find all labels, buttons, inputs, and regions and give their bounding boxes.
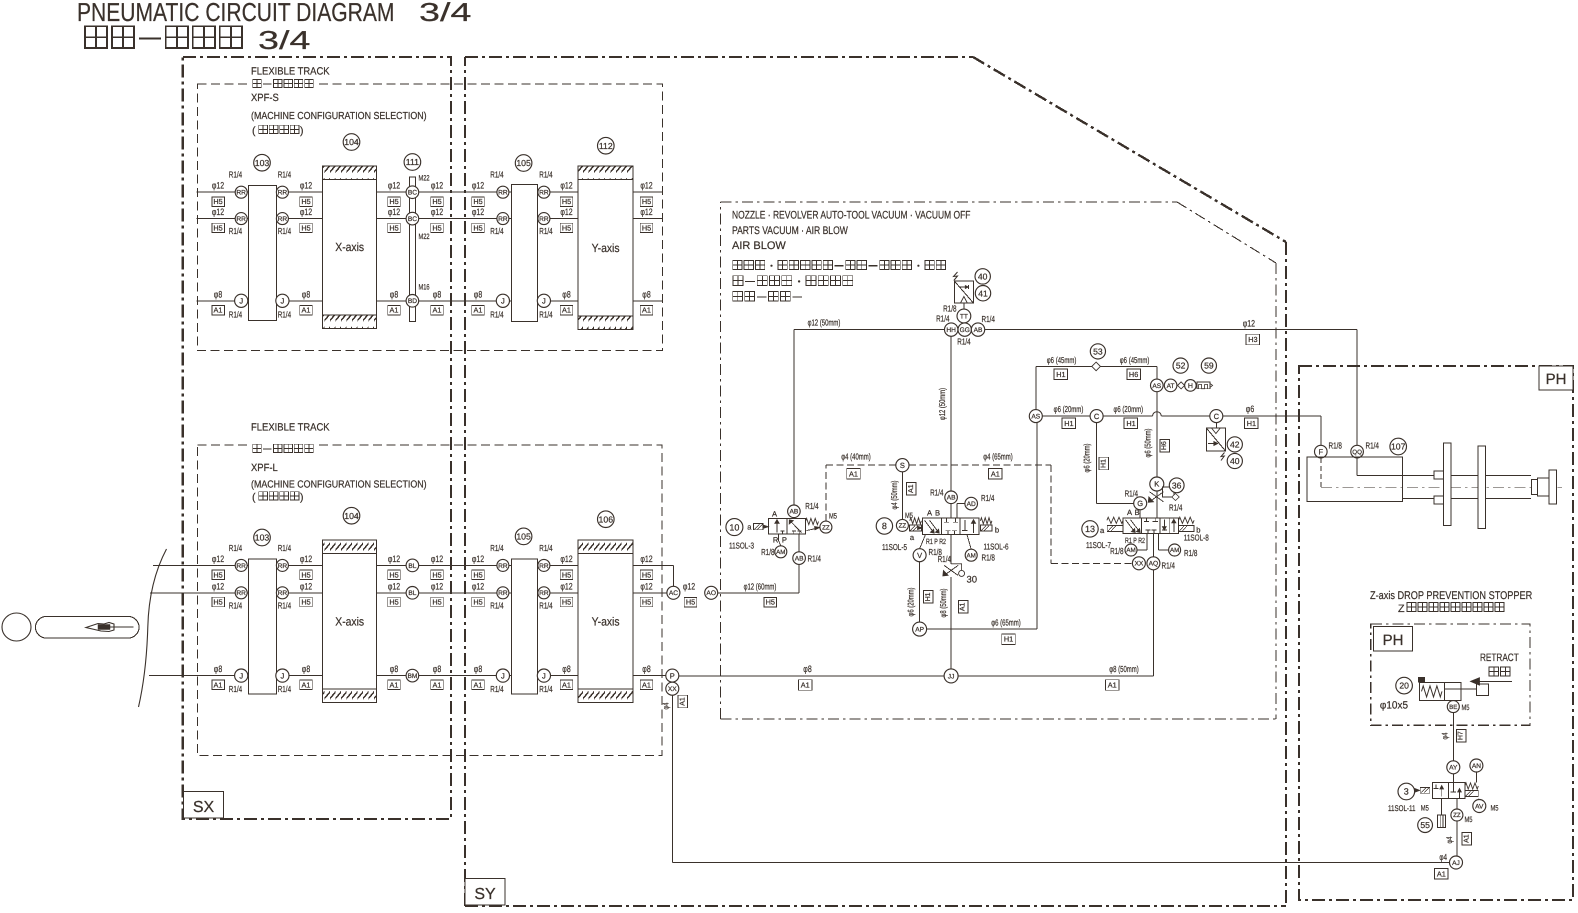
- svg-text:RETRACT: RETRACT: [1480, 652, 1519, 664]
- svg-text:PH: PH: [1546, 371, 1567, 388]
- svg-text:V: V: [917, 551, 922, 560]
- circled id 111: [404, 154, 421, 171]
- svg-text:φ12: φ12: [640, 181, 652, 191]
- PH boundary box (dash-dot): [1299, 366, 1573, 900]
- svg-text:PARTS VACUUM · AIR BLOW: PARTS VACUUM · AIR BLOW: [732, 225, 848, 237]
- svg-text:Z-axis DROP PREVENTION STOPPER: Z-axis DROP PREVENTION STOPPER: [1370, 590, 1532, 602]
- svg-text:H6: H6: [1129, 370, 1138, 379]
- svg-text:H5: H5: [389, 224, 398, 233]
- flexible track symbol rect (left): [249, 559, 277, 694]
- circled 40 (filter): [975, 269, 990, 284]
- φ6(45mm) bypass loop: [1035, 366, 1037, 409]
- svg-text:M5: M5: [1421, 804, 1430, 813]
- svg-text:36: 36: [1172, 480, 1182, 490]
- svg-text:R1/4: R1/4: [539, 226, 552, 236]
- fitting circles RR row y=565.4: [497, 559, 509, 571]
- svg-text:AB: AB: [790, 509, 799, 516]
- svg-text:R1/4: R1/4: [490, 684, 503, 694]
- svg-text:RR: RR: [498, 563, 508, 570]
- svg-text:φ12: φ12: [472, 207, 484, 217]
- svg-text:R1/8: R1/8: [761, 547, 774, 557]
- svg-text:R1/4: R1/4: [278, 543, 291, 553]
- svg-text:AB: AB: [795, 556, 804, 563]
- svg-text:R1/4: R1/4: [278, 600, 291, 610]
- svg-text:φ12: φ12: [640, 554, 652, 564]
- svg-text:A1: A1: [1437, 869, 1446, 878]
- svg-text:G: G: [1137, 499, 1143, 508]
- svg-text:FLEXIBLE TRACK: FLEXIBLE TRACK: [251, 422, 330, 434]
- circled id 112: [598, 137, 615, 154]
- φ6(20mm) branch C down to G: [1096, 423, 1098, 504]
- filter-regulator unit: [954, 281, 973, 303]
- line1 corner down to AC junction: [672, 565, 674, 586]
- QQ feed into block: [1356, 458, 1358, 476]
- circled id 105: [515, 528, 532, 545]
- valve3 AV port: [1478, 798, 1479, 801]
- svg-text:H5: H5: [213, 197, 222, 206]
- svg-text:BM: BM: [407, 673, 417, 680]
- fitting circles RR row y=592.8: [497, 587, 509, 599]
- svg-text:40: 40: [978, 272, 988, 282]
- svg-text:φ12: φ12: [472, 581, 484, 591]
- svg-text:J: J: [281, 297, 285, 306]
- svg-text:RR: RR: [539, 216, 549, 223]
- φ4 drop line from XX to bottom run: [671, 695, 673, 862]
- svg-text:φ12: φ12: [300, 554, 312, 564]
- circled 41 (filter): [975, 286, 990, 301]
- svg-text:φ12: φ12: [560, 181, 572, 191]
- fitting circles J row y=675.6: [235, 669, 248, 682]
- svg-text:BL: BL: [408, 590, 416, 597]
- muffler symbol: [1197, 382, 1210, 389]
- svg-text:K: K: [1154, 480, 1159, 489]
- svg-text:RR: RR: [236, 190, 246, 197]
- svg-text:H3: H3: [1248, 335, 1257, 344]
- flexible track symbol rect (right): [512, 559, 538, 694]
- svg-text:H5: H5: [432, 197, 441, 206]
- Y-axis axis box with hatched ends: [578, 540, 633, 703]
- svg-text:A1: A1: [679, 697, 686, 706]
- svg-text:φ12: φ12: [212, 554, 224, 564]
- circled id 106: [598, 511, 615, 528]
- AJ connector: [1450, 856, 1463, 869]
- svg-text:AY: AY: [1449, 765, 1458, 772]
- svg-text:R1/8: R1/8: [982, 553, 995, 563]
- svg-text:H: H: [1188, 383, 1193, 390]
- svg-text:SX: SX: [193, 799, 215, 816]
- svg-text:H5: H5: [473, 224, 482, 233]
- svg-text:A1: A1: [562, 681, 571, 690]
- valve10 body: [769, 518, 806, 534]
- svg-text:AS: AS: [1152, 383, 1161, 390]
- valve13 drop to bottom φ8 line: [1152, 534, 1154, 557]
- svg-text:AS: AS: [1031, 414, 1040, 421]
- svg-text:H1: H1: [925, 592, 932, 601]
- svg-text:H5: H5: [213, 224, 222, 233]
- svg-text:φ6 (20mm): φ6 (20mm): [1054, 404, 1084, 414]
- svg-text:AM: AM: [967, 552, 976, 559]
- cylinder block rectangle: [1307, 457, 1403, 501]
- svg-text:φ6: φ6: [1246, 404, 1254, 414]
- svg-text:J: J: [542, 297, 546, 306]
- svg-text:Y-axis: Y-axis: [592, 241, 620, 255]
- svg-text:AM: AM: [1126, 547, 1135, 554]
- flash mark on filter: [954, 272, 958, 281]
- svg-text:H5: H5: [562, 598, 571, 607]
- svg-text:RR: RR: [278, 563, 288, 570]
- svg-text:M5: M5: [905, 511, 914, 520]
- svg-text:φ6 (45mm): φ6 (45mm): [1120, 355, 1150, 365]
- svg-text:φ8: φ8: [390, 664, 398, 674]
- valve3 11SOL-11 assembly: [1398, 783, 1415, 800]
- valve13 center cell closed: [1146, 518, 1148, 522]
- svg-text:φ8: φ8: [803, 664, 811, 674]
- svg-text:Y-axis: Y-axis: [592, 614, 620, 628]
- svg-text:104: 104: [344, 511, 359, 521]
- svg-text:A1: A1: [214, 306, 223, 315]
- flange 1 with steps: [1443, 443, 1451, 525]
- AS connector on riser: [1029, 410, 1042, 423]
- svg-text:103: 103: [255, 533, 270, 543]
- svg-text:H5: H5: [686, 598, 695, 607]
- title-jp air piping diagram 3/4: [85, 26, 107, 48]
- hand symbol: [86, 623, 114, 632]
- svg-text:112: 112: [599, 141, 613, 151]
- svg-text:104: 104: [344, 137, 359, 147]
- svg-text:J: J: [542, 671, 546, 680]
- valve10 11SOL-3 assembly: [726, 519, 743, 536]
- svg-text:H1: H1: [1126, 419, 1135, 428]
- bottom φ8 manifold line: [679, 675, 1154, 677]
- svg-text:M5: M5: [1465, 815, 1474, 824]
- pointer pill with hand: [36, 617, 140, 639]
- svg-text:RR: RR: [236, 563, 246, 570]
- svg-text:ZZ: ZZ: [899, 523, 907, 530]
- circled 107: [1390, 438, 1407, 455]
- svg-text:R1/4: R1/4: [539, 309, 552, 319]
- svg-text:φ8: φ8: [562, 664, 570, 674]
- svg-text:A1: A1: [302, 681, 311, 690]
- svg-text:R: R: [773, 535, 779, 544]
- X-axis axis box with hatched ends: [323, 540, 377, 703]
- BE port under cylinder: [1452, 700, 1454, 760]
- valve8 V port: [920, 535, 926, 549]
- svg-text:X-axis: X-axis: [335, 614, 364, 628]
- svg-text:RR: RR: [278, 190, 288, 197]
- svg-text:R1/4: R1/4: [229, 170, 242, 180]
- svg-text:RR: RR: [539, 563, 549, 570]
- φ6(65mm) line AP to AS riser: [927, 628, 1038, 630]
- svg-text:φ8: φ8: [390, 289, 398, 299]
- svg-text:H5: H5: [642, 598, 651, 607]
- connector circles ('BL', 'BL', 'BM'): [406, 559, 419, 572]
- svg-text:φ4: φ4: [1440, 732, 1449, 739]
- svg-text:111: 111: [406, 157, 419, 167]
- valve3 body: [1432, 783, 1465, 799]
- svg-text:φ6 (65mm): φ6 (65mm): [991, 617, 1021, 627]
- QQ connector: [1351, 445, 1364, 458]
- G connector above valve13: [1134, 497, 1147, 510]
- svg-text:φ12 (50mm): φ12 (50mm): [808, 317, 841, 327]
- svg-text:φ8: φ8: [562, 289, 570, 299]
- svg-text:M22: M22: [419, 174, 430, 183]
- valve8 right cell arrows: [964, 520, 966, 531]
- svg-text:R1/4: R1/4: [229, 309, 242, 319]
- supply drop to valve10: [793, 330, 795, 505]
- circled 42 and 40 (vacuum gen): [1227, 437, 1242, 452]
- svg-text:AB: AB: [947, 495, 956, 502]
- svg-text:3/4: 3/4: [258, 25, 310, 55]
- svg-text:FLEXIBLE TRACK: FLEXIBLE TRACK: [251, 66, 330, 78]
- svg-text:BE: BE: [1449, 704, 1457, 711]
- svg-text:H5: H5: [432, 570, 441, 579]
- svg-text:R1/4: R1/4: [490, 226, 503, 236]
- svg-text:R1/4: R1/4: [539, 170, 552, 180]
- flange 2: [1478, 446, 1486, 529]
- svg-text:): ): [300, 492, 304, 504]
- valve3 right cell: [1452, 783, 1454, 793]
- svg-text:A1: A1: [302, 306, 311, 315]
- svg-text:XX: XX: [668, 686, 677, 693]
- svg-text:A1: A1: [433, 306, 442, 315]
- svg-text:A1: A1: [642, 681, 651, 690]
- svg-text:H5: H5: [562, 197, 571, 206]
- svg-text:H5: H5: [562, 570, 571, 579]
- F pilot dashed into block: [1320, 458, 1322, 487]
- svg-text:AM: AM: [1170, 547, 1179, 554]
- SY label box: [465, 879, 505, 906]
- svg-text:A1: A1: [390, 306, 399, 315]
- fitting circles RR row y=218.6: [497, 213, 509, 225]
- valve10 left cell arrow: [776, 520, 778, 532]
- svg-text:H5: H5: [642, 224, 651, 233]
- svg-text:R1/8: R1/8: [1184, 548, 1197, 558]
- svg-text:BL: BL: [408, 563, 416, 570]
- fitting circles RR row y=192.2: [235, 186, 247, 198]
- NOZZLE function box (dash-dot, cut corner): [720, 202, 722, 719]
- svg-text:φ4: φ4: [1445, 836, 1454, 843]
- svg-text:φ8 (50mm): φ8 (50mm): [1109, 664, 1139, 674]
- riser from φ6(65mm) to AS: [1036, 423, 1038, 629]
- svg-text:AO: AO: [706, 590, 716, 597]
- svg-text:AC: AC: [669, 590, 678, 597]
- svg-text:φ4: φ4: [662, 702, 671, 709]
- AO connector: [705, 586, 718, 599]
- valve10 AM port: [778, 534, 780, 540]
- fitting circles RR row y=218.6: [235, 213, 247, 225]
- svg-text:H5: H5: [301, 197, 310, 206]
- valve13 11SOL-7 / 11SOL-8 assembly: [1082, 521, 1098, 537]
- svg-text:A1: A1: [960, 603, 967, 612]
- svg-text:φ6 (20mm): φ6 (20mm): [1113, 404, 1143, 414]
- svg-text:R1/8: R1/8: [1329, 441, 1342, 451]
- svg-text:AP: AP: [915, 627, 924, 634]
- lower pipes φ12/φ12/φ8: [153, 564, 673, 566]
- valve13 AM ports: [1146, 534, 1148, 550]
- svg-text:R1/4: R1/4: [1125, 488, 1138, 498]
- svg-text:R1/4: R1/4: [808, 554, 821, 564]
- svg-text:H1: H1: [1247, 419, 1256, 428]
- svg-text:RR: RR: [278, 216, 288, 223]
- vacuum generator at C right: [1215, 423, 1217, 428]
- svg-text:M22: M22: [419, 232, 430, 241]
- SX label box: [184, 792, 224, 819]
- svg-text:10: 10: [729, 522, 739, 532]
- svg-text:A1: A1: [1464, 834, 1471, 843]
- svg-text:R1/4: R1/4: [1162, 560, 1175, 570]
- svg-text:φ12: φ12: [560, 554, 572, 564]
- svg-text:M5: M5: [1462, 703, 1471, 712]
- svg-text:AD: AD: [967, 501, 976, 508]
- svg-text:H5: H5: [642, 570, 651, 579]
- bulkhead thin rect: [410, 177, 416, 322]
- svg-text:H5: H5: [473, 570, 482, 579]
- svg-text:AM: AM: [776, 549, 785, 556]
- svg-text:H5: H5: [473, 197, 482, 206]
- shaft bottom line: [1403, 498, 1531, 500]
- svg-text:AQ: AQ: [1149, 561, 1159, 568]
- XPF-L flexible track dashed box: [198, 445, 662, 756]
- svg-text:40: 40: [1230, 456, 1240, 466]
- valve8 ZZ pilot + M5: [896, 519, 908, 531]
- svg-text:φ8: φ8: [302, 664, 310, 674]
- svg-text:φ6 (50mm): φ6 (50mm): [1142, 428, 1152, 457]
- svg-text:H7: H7: [1458, 731, 1465, 740]
- svg-text:RR: RR: [236, 216, 246, 223]
- svg-text:φ8: φ8: [433, 289, 441, 299]
- svg-text:R1/8: R1/8: [943, 304, 956, 314]
- svg-text:φ8: φ8: [214, 664, 222, 674]
- svg-text:A1: A1: [1108, 681, 1117, 690]
- svg-text:H5: H5: [562, 224, 571, 233]
- svg-text:b: b: [995, 526, 999, 535]
- svg-text:C: C: [1094, 412, 1100, 421]
- svg-text:41: 41: [978, 288, 988, 298]
- svg-text:105: 105: [516, 158, 531, 168]
- svg-text:M16: M16: [419, 283, 430, 292]
- circled id 103: [254, 154, 271, 171]
- valve10 lower AB port to supply line: [798, 534, 800, 593]
- valve3 ZZ port down to AJ: [1451, 809, 1463, 821]
- svg-text:R1/8: R1/8: [1110, 546, 1123, 556]
- svg-text:R1/4: R1/4: [278, 226, 291, 236]
- svg-text:A1: A1: [801, 681, 810, 690]
- svg-text:H5: H5: [766, 598, 775, 607]
- svg-text:AN: AN: [1472, 763, 1481, 770]
- svg-text:PNEUMATIC CIRCUIT DIAGRAM: PNEUMATIC CIRCUIT DIAGRAM: [77, 0, 394, 27]
- svg-text:φ12: φ12: [388, 207, 400, 217]
- svg-text:3/4: 3/4: [419, 0, 471, 27]
- circled id 103: [254, 529, 271, 546]
- valve10 right cell diagonal: [790, 520, 802, 533]
- svg-text:42: 42: [1230, 440, 1240, 450]
- svg-text:(: (: [252, 125, 256, 137]
- svg-text:φ12: φ12: [388, 554, 400, 564]
- circled 20 + φ10x5: [1396, 677, 1413, 694]
- stopper cylinder with spring: [1420, 682, 1462, 700]
- machine pointer ellipse: [2, 613, 31, 641]
- valve13 left cell parallel diagonal flows: [1126, 520, 1136, 532]
- svg-text:R1/4: R1/4: [539, 600, 552, 610]
- svg-text:GG: GG: [960, 327, 970, 334]
- valve8 11SOL-5 / 11SOL-6 assembly: [876, 518, 892, 534]
- svg-text:P: P: [670, 671, 675, 680]
- svg-text:55: 55: [1420, 820, 1430, 830]
- svg-text:AV: AV: [1475, 803, 1484, 810]
- valve8 left cell parallel diagonal flows: [925, 520, 935, 533]
- svg-text:A1: A1: [642, 306, 651, 315]
- fitting circles RR row y=592.8: [235, 587, 247, 599]
- svg-text:XPF-S: XPF-S: [251, 92, 279, 104]
- svg-text:φ12: φ12: [212, 581, 224, 591]
- svg-text:RR: RR: [498, 216, 508, 223]
- svg-text:φ10x5: φ10x5: [1380, 700, 1408, 712]
- svg-text:X-axis: X-axis: [335, 240, 364, 254]
- svg-text:J: J: [501, 671, 505, 680]
- circled id 104: [343, 134, 360, 151]
- main air line φ12(50mm): [794, 329, 1357, 331]
- svg-text:PH: PH: [1383, 632, 1404, 649]
- svg-text:13: 13: [1085, 524, 1095, 534]
- svg-text:Z: Z: [1398, 603, 1405, 615]
- svg-text:105: 105: [516, 532, 531, 542]
- svg-text:): ): [300, 125, 304, 137]
- valve13 right cell arrows: [1168, 518, 1170, 534]
- svg-text:B: B: [1134, 508, 1139, 517]
- svg-text:RR: RR: [236, 590, 246, 597]
- svg-text:φ4 (50mm): φ4 (50mm): [889, 480, 899, 509]
- svg-text:RR: RR: [498, 590, 508, 597]
- svg-text:R1/4: R1/4: [957, 337, 970, 347]
- φ6 line entering PH, corner to F: [1315, 445, 1328, 458]
- svg-text:H5: H5: [301, 570, 310, 579]
- svg-text:R1/4: R1/4: [490, 600, 503, 610]
- svg-text:H5: H5: [301, 598, 310, 607]
- svg-text:φ12 (60mm): φ12 (60mm): [744, 581, 777, 591]
- circled id 104: [343, 507, 360, 524]
- valve8 body 3-position: [923, 518, 979, 534]
- SX boundary box (dash-dot): [183, 57, 451, 819]
- svg-text:R1/4: R1/4: [229, 226, 242, 236]
- Y-axis axis box with hatched ends: [578, 166, 633, 330]
- valve3 spring + pilot right: [1465, 783, 1478, 789]
- circled id 105: [515, 155, 532, 172]
- valve8 AB top connector: [945, 491, 958, 504]
- center dash-dot line: [1321, 486, 1562, 488]
- supply drop to valve8 w/ rotated label: [950, 336, 952, 491]
- svg-text:R1/4: R1/4: [278, 684, 291, 694]
- valve8 right spring + pilot block b: [980, 518, 992, 524]
- svg-text:XX: XX: [1135, 561, 1144, 568]
- svg-text:H5: H5: [473, 598, 482, 607]
- svg-text:R1/4: R1/4: [938, 554, 951, 564]
- svg-text:φ12: φ12: [431, 581, 443, 591]
- pilot dashed line ZZ10 up: [825, 465, 827, 521]
- main line corner down to QQ: [1356, 330, 1358, 446]
- pilot dashed φ4(40mm) to S: [826, 464, 896, 466]
- svg-text:R1 P R2: R1 P R2: [926, 537, 946, 546]
- shaft top line: [1357, 475, 1531, 477]
- svg-text:P: P: [782, 535, 787, 544]
- svg-text:φ8: φ8: [474, 664, 482, 674]
- svg-text:H5: H5: [301, 224, 310, 233]
- valve3 exhaust symbol left: [1420, 788, 1430, 794]
- valve13 body 3-position: [1123, 518, 1178, 534]
- vertical φ6(50mm) line down to K: [1156, 366, 1158, 477]
- svg-text:B: B: [935, 508, 940, 517]
- svg-text:(MACHINE CONFIGURATION SELECTI: (MACHINE CONFIGURATION SELECTION): [251, 111, 427, 122]
- svg-text:φ12: φ12: [560, 207, 572, 217]
